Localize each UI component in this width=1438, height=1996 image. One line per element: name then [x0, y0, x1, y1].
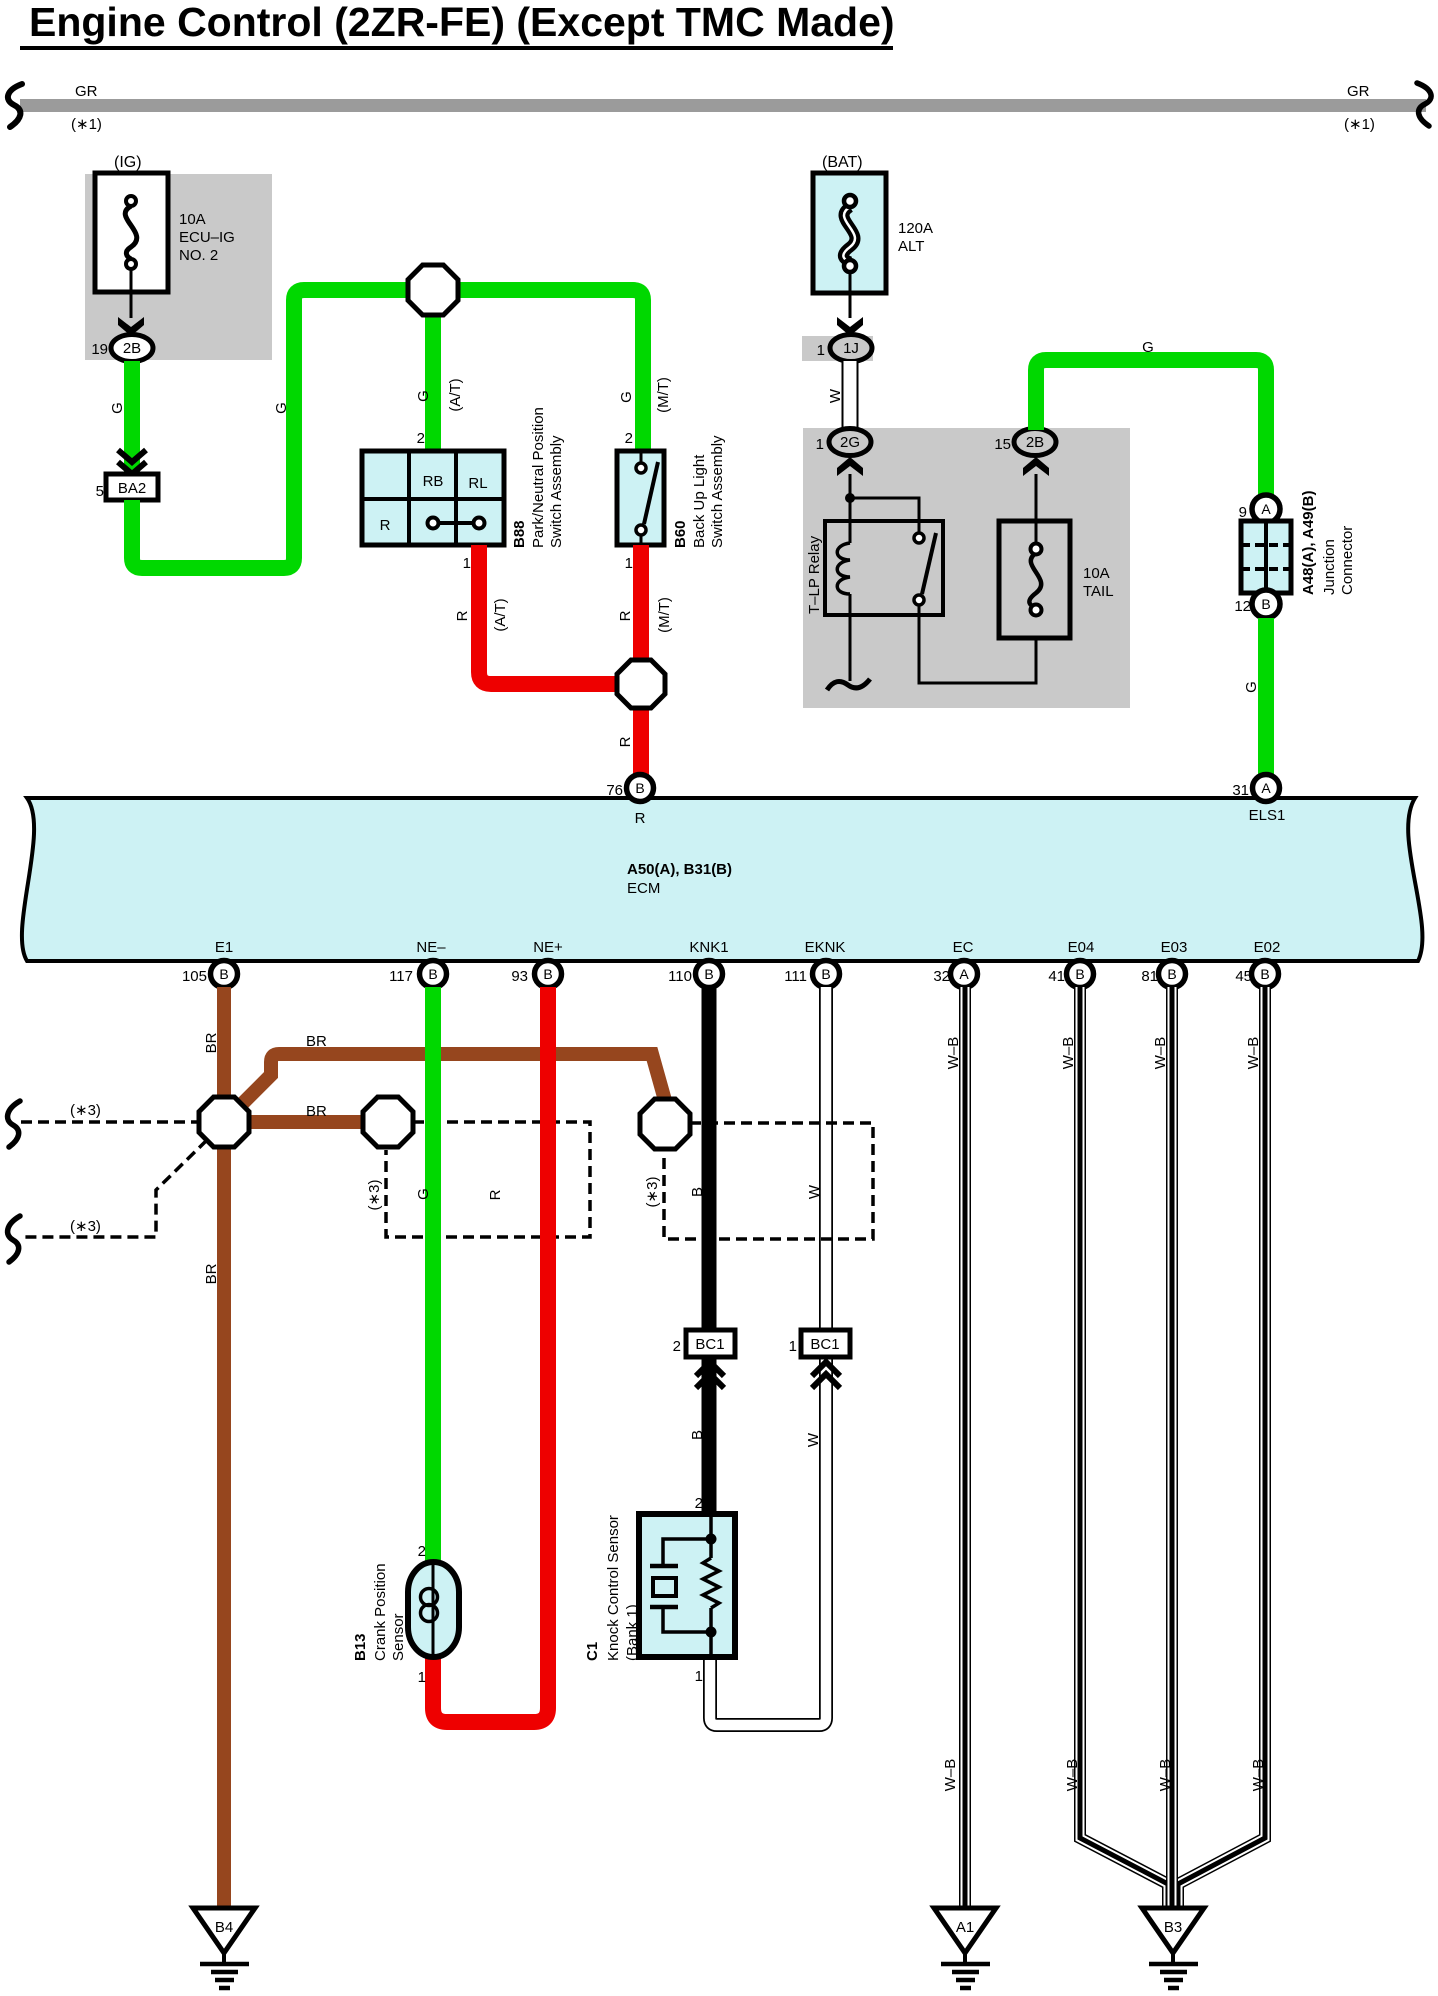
wire R from ECM 93 NE+ to B13 pin 1	[433, 987, 548, 1722]
svg-text:G: G	[1142, 339, 1154, 356]
node W-B label E04 upper	[1060, 1037, 1077, 1070]
svg-text:Crank Position: Crank Position	[372, 1563, 389, 1661]
svg-text:BC1: BC1	[695, 1336, 724, 1353]
ground B3	[1142, 1908, 1204, 1988]
sensor B13 Crank Position Sensor	[408, 1562, 459, 1657]
node B label KNK box	[689, 1187, 706, 1197]
svg-text:A: A	[1261, 501, 1271, 517]
arrow up to 2B	[1023, 457, 1049, 476]
svg-text:(Bank 1): (Bank 1)	[624, 1604, 641, 1661]
svg-text:RB: RB	[423, 473, 444, 490]
svg-text:1: 1	[625, 555, 633, 572]
arrow up to 2G	[837, 457, 863, 476]
connector ECM 76 (B)	[606, 775, 653, 828]
svg-text:2: 2	[418, 1543, 426, 1560]
node T-LP Relay label	[806, 535, 823, 614]
svg-text:105: 105	[182, 968, 207, 985]
node B label lower	[689, 1430, 706, 1440]
node R label NE box	[487, 1189, 504, 1200]
wire bus-end squiggle right	[1417, 83, 1431, 126]
node B88 pin 2 label	[417, 430, 425, 447]
svg-text:B: B	[821, 966, 830, 982]
node (*3) label KNK box	[644, 1177, 661, 1208]
svg-text:R: R	[487, 1189, 504, 1200]
connector ECM 111 (B) EKNK	[784, 961, 839, 988]
svg-text:BR: BR	[306, 1033, 327, 1050]
svg-text:120A: 120A	[898, 220, 933, 237]
svg-text:2: 2	[695, 1495, 703, 1512]
ECM A50(A) B31(B)	[22, 798, 1423, 961]
svg-text:ELS1: ELS1	[1249, 807, 1286, 824]
fuse 10A ECU-IG NO.2	[95, 173, 235, 292]
svg-text:BR: BR	[306, 1103, 327, 1120]
node G label top	[1142, 339, 1154, 356]
svg-text:B: B	[635, 780, 644, 796]
svg-text:Park/Neutral Position: Park/Neutral Position	[530, 407, 547, 548]
node ECM pin name labels	[215, 939, 1281, 956]
connector 5 BA2	[96, 474, 158, 500]
svg-text:15: 15	[994, 436, 1011, 453]
svg-text:A: A	[959, 966, 969, 982]
svg-text:76: 76	[606, 782, 623, 799]
node W label	[827, 388, 844, 403]
node B13 name label	[352, 1563, 407, 1661]
svg-text:TAIL: TAIL	[1083, 583, 1114, 600]
svg-text:E04: E04	[1068, 939, 1095, 956]
svg-text:C1: C1	[584, 1642, 601, 1661]
svg-text:W–B: W–B	[1245, 1037, 1262, 1070]
junction connector A48(A) A49(B)	[1241, 521, 1291, 593]
node junction connector name label	[1300, 491, 1356, 595]
wire G loop from BA2 down right and up to junction	[132, 290, 433, 568]
connector 1 (1J)	[802, 335, 873, 362]
svg-text:W–B: W–B	[1152, 1037, 1169, 1070]
node splice octagon BR 2	[363, 1097, 413, 1147]
svg-text:GR: GR	[75, 83, 98, 100]
svg-text:A48(A), A49(B): A48(A), A49(B)	[1300, 491, 1317, 595]
node B13 pin 2 label	[418, 1543, 426, 1560]
wire bus-end squiggle (*3) upper	[8, 1101, 20, 1147]
node W-B label E02 lower	[1250, 1759, 1267, 1792]
svg-text:ECM: ECM	[627, 880, 660, 897]
svg-text:(∗3): (∗3)	[70, 1102, 101, 1119]
wire W from 1J to 2G	[842, 361, 859, 430]
svg-text:W–B: W–B	[1060, 1037, 1077, 1070]
node G (A/T) label	[415, 378, 464, 411]
switch B60 Back Up Light Switch Assembly	[617, 451, 664, 545]
arrow down into 1(1J)	[837, 317, 863, 336]
svg-text:B13: B13	[352, 1633, 369, 1661]
svg-text:R: R	[454, 610, 471, 621]
wire W-B from ECM 45 E02 to ground B3	[1178, 987, 1265, 1908]
svg-text:B: B	[1260, 966, 1269, 982]
svg-text:Connector: Connector	[1339, 526, 1356, 595]
svg-text:5: 5	[96, 483, 104, 500]
svg-text:B: B	[704, 966, 713, 982]
title: Engine Control (2ZR-FE) (Except TMC Made)	[20, 0, 895, 48]
fuse block shading (IG)	[85, 174, 272, 360]
svg-text:2: 2	[417, 430, 425, 447]
svg-text:2B: 2B	[1026, 434, 1044, 451]
svg-text:1: 1	[789, 1338, 797, 1355]
wire BR between splices	[224, 1115, 388, 1129]
connector ECM 110 (B) KNK1	[668, 961, 722, 988]
node B60 name label	[672, 435, 726, 548]
node C1 pin 1 label	[695, 1668, 703, 1685]
svg-text:W–B: W–B	[1157, 1759, 1174, 1792]
svg-text:E02: E02	[1254, 939, 1281, 956]
svg-text:W–B: W–B	[945, 1037, 962, 1070]
wire bus-end squiggle (*3) lower	[8, 1216, 20, 1262]
node G label right loop	[273, 402, 290, 414]
connector ECM 31 (A)	[1232, 775, 1285, 825]
svg-text:W–B: W–B	[1064, 1759, 1081, 1792]
svg-text:110: 110	[668, 968, 692, 985]
connector 19 (2B)	[91, 335, 153, 362]
node (*3) label upper	[70, 1102, 101, 1119]
svg-text:G: G	[618, 391, 635, 403]
node B60 pin 2 label	[625, 430, 633, 447]
svg-text:ECU–IG: ECU–IG	[179, 229, 235, 246]
arrow double chevron into BA2	[118, 450, 146, 474]
node B13 pin 1 label	[418, 1669, 426, 1686]
node GR label left	[71, 83, 102, 133]
node splice octagon red	[617, 660, 665, 708]
node BR label top horizontal	[306, 1033, 327, 1050]
svg-text:W: W	[827, 388, 844, 403]
svg-text:B: B	[1167, 966, 1176, 982]
node G label lower	[1243, 681, 1260, 693]
svg-text:W: W	[806, 1184, 823, 1199]
connector 15 (2B)	[994, 429, 1056, 456]
svg-text:B: B	[219, 966, 228, 982]
svg-text:R: R	[617, 610, 634, 621]
svg-text:A: A	[1261, 780, 1271, 796]
svg-text:W–B: W–B	[942, 1759, 959, 1792]
svg-text:B60: B60	[672, 520, 689, 548]
wire GR bus bar	[20, 99, 1426, 112]
svg-text:93: 93	[511, 968, 528, 985]
svg-text:W–B: W–B	[1250, 1759, 1267, 1792]
svg-text:1: 1	[817, 342, 825, 359]
ground A1	[934, 1908, 996, 1988]
svg-text:Switch Assembly: Switch Assembly	[548, 435, 565, 548]
svg-text:BC1: BC1	[810, 1336, 839, 1353]
svg-text:81: 81	[1141, 968, 1158, 985]
connector 9 (A)	[1239, 495, 1280, 523]
svg-text:(∗3): (∗3)	[366, 1180, 383, 1211]
svg-text:9: 9	[1239, 504, 1247, 521]
svg-text:R: R	[635, 810, 646, 827]
svg-text:31: 31	[1232, 782, 1249, 799]
node (*3) label lower	[70, 1218, 101, 1235]
wire BR branch to upper harness	[233, 1054, 666, 1113]
svg-text:G: G	[415, 390, 432, 402]
ground B4	[193, 1908, 255, 1988]
node BR label vertical upper	[203, 1032, 220, 1053]
svg-text:G: G	[109, 402, 126, 414]
wire shield dashed box around NE wires	[386, 1122, 590, 1237]
connector ECM 45 (B) E02	[1235, 961, 1278, 988]
svg-text:(A/T): (A/T)	[492, 598, 509, 631]
wire shield dashed (*3) left branch 2	[23, 1140, 207, 1237]
node BR label mid horizontal	[306, 1103, 327, 1120]
node R label above 76(B)	[617, 736, 634, 747]
svg-text:B88: B88	[511, 520, 528, 548]
node (IG) label	[114, 154, 142, 171]
node W label lower	[805, 1432, 822, 1447]
connector 12 (B)	[1234, 590, 1280, 618]
svg-text:(A/T): (A/T)	[447, 378, 464, 411]
svg-text:1: 1	[418, 1669, 426, 1686]
node (BAT) label	[822, 154, 863, 171]
svg-text:A1: A1	[956, 1919, 974, 1936]
connector ECM 32 (A) EC	[933, 961, 977, 988]
svg-text:2: 2	[673, 1338, 681, 1355]
svg-text:(∗3): (∗3)	[70, 1218, 101, 1235]
wire G from junction to B60 drop	[433, 290, 643, 451]
wire W-B from ECM 41 E04 to ground B3	[1080, 987, 1168, 1908]
wire fusible link output	[849, 270, 852, 318]
arrow down into 19(2B)	[118, 317, 144, 336]
arrow double chevron up BC1-1	[812, 1362, 840, 1388]
wire W-B from ECM 81 E03 to ground B3	[1166, 987, 1178, 1908]
fusible link 120A ALT	[813, 173, 933, 293]
arrow double chevron up BC1-2	[696, 1362, 724, 1388]
svg-text:Switch Assembly: Switch Assembly	[709, 435, 726, 548]
svg-text:1: 1	[695, 1668, 703, 1685]
relay T-LP Relay	[825, 474, 1036, 690]
svg-text:2G: 2G	[840, 434, 860, 451]
svg-text:B: B	[689, 1187, 706, 1197]
wire BR from ECM 105 E1 to ground B4	[217, 987, 231, 1908]
connector ECM 41 (B) E04	[1048, 961, 1093, 988]
wire W EKNK from ECM 111 to C1 pin 1	[710, 987, 826, 1725]
node C1 name label	[584, 1515, 641, 1661]
svg-text:Knock Control Sensor: Knock Control Sensor	[605, 1515, 622, 1661]
svg-text:ALT: ALT	[898, 238, 924, 255]
svg-text:10A: 10A	[179, 211, 206, 228]
node splice octagon BR 1	[199, 1097, 249, 1147]
wire G from ECM 117 NE- to B13 pin 2	[425, 987, 441, 1564]
wire R from splice to ECM 76(B)	[633, 684, 649, 777]
svg-text:1: 1	[463, 555, 471, 572]
node B60 pin 1 label	[625, 555, 633, 572]
wire W-B from ECM 32 EC to ground A1	[959, 987, 971, 1908]
wire shield dashed (*3) left branch 1	[21, 1120, 199, 1124]
svg-text:B: B	[1075, 966, 1084, 982]
fuse 10A TAIL	[999, 474, 1114, 638]
svg-text:EKNK: EKNK	[805, 939, 846, 956]
node W-B label EC upper	[945, 1037, 962, 1070]
node G (M/T) label	[618, 377, 672, 413]
wire R from B60 pin 1 to splice	[633, 545, 649, 684]
svg-text:117: 117	[389, 968, 413, 985]
svg-text:E1: E1	[215, 939, 233, 956]
svg-text:(∗1): (∗1)	[71, 116, 102, 133]
svg-text:R: R	[380, 517, 391, 534]
wire shield dashed box around KNK wires	[664, 1123, 873, 1239]
svg-text:BA2: BA2	[118, 480, 146, 497]
svg-text:RL: RL	[468, 475, 487, 492]
svg-text:B3: B3	[1164, 1919, 1182, 1936]
svg-text:B: B	[689, 1430, 706, 1440]
svg-text:NE+: NE+	[533, 939, 563, 956]
svg-text:R: R	[617, 736, 634, 747]
connector ECM 117 (B) NE-	[389, 961, 446, 988]
svg-text:BR: BR	[203, 1032, 220, 1053]
svg-text:2: 2	[625, 430, 633, 447]
wire B from ECM 110 KNK1 to C1 pin 2	[702, 987, 717, 1516]
wire G from relay 2B up over to junction connector	[1036, 360, 1266, 497]
connector ECM 93 (B) NE+	[511, 961, 561, 988]
svg-text:(IG): (IG)	[114, 154, 142, 171]
svg-text:NE–: NE–	[416, 939, 446, 956]
svg-text:(∗3): (∗3)	[644, 1177, 661, 1208]
node BR label vertical lower	[203, 1263, 220, 1284]
wire bus-end squiggle left	[8, 84, 22, 127]
svg-text:Junction: Junction	[1321, 539, 1338, 595]
svg-text:19: 19	[91, 341, 108, 358]
node C1 pin 2 label	[695, 1495, 703, 1512]
svg-text:KNK1: KNK1	[689, 939, 728, 956]
svg-text:1: 1	[816, 436, 824, 453]
svg-text:Back Up Light: Back Up Light	[691, 454, 708, 548]
svg-text:Engine Control (2ZR-FE) (Excep: Engine Control (2ZR-FE) (Except TMC Made…	[29, 0, 895, 45]
relay block shading T-LP	[803, 428, 1130, 708]
svg-text:B: B	[428, 966, 437, 982]
svg-text:EC: EC	[953, 939, 974, 956]
connector ECM 105 (B) E1	[182, 961, 238, 988]
node GR label right	[1344, 83, 1375, 133]
node W label KNK box	[806, 1184, 823, 1199]
connector 1 (2G)	[816, 429, 871, 456]
node W-B label E04 lower	[1064, 1759, 1081, 1792]
node G label NE box	[415, 1188, 432, 1200]
svg-text:G: G	[415, 1188, 432, 1200]
node B88 pin 1 label	[463, 555, 471, 572]
wire fuse output to 2B	[130, 268, 133, 318]
node W-B label EC lower	[942, 1759, 959, 1792]
connector 2 BC1	[673, 1330, 735, 1357]
node R (A/T) label	[454, 598, 509, 631]
svg-text:GR: GR	[1347, 83, 1370, 100]
svg-text:2B: 2B	[123, 340, 141, 357]
svg-text:(∗1): (∗1)	[1344, 116, 1375, 133]
wire G from junction down to B88 pin 2	[425, 290, 441, 451]
svg-text:32: 32	[933, 968, 950, 985]
svg-text:(M/T): (M/T)	[656, 597, 673, 633]
svg-text:G: G	[1243, 681, 1260, 693]
svg-text:B: B	[543, 966, 552, 982]
svg-text:B4: B4	[215, 1919, 233, 1936]
svg-text:10A: 10A	[1083, 565, 1110, 582]
node splice octagon green	[408, 265, 458, 315]
svg-text:(BAT): (BAT)	[822, 154, 863, 171]
node W-B label E03 upper	[1152, 1037, 1169, 1070]
node R (M/T) label	[617, 597, 673, 633]
switch B88 Park/Neutral Position Switch Assembly	[362, 451, 504, 545]
node B88 name label	[511, 407, 565, 548]
svg-text:W: W	[805, 1432, 822, 1447]
svg-text:A50(A), B31(B): A50(A), B31(B)	[627, 861, 732, 878]
svg-text:111: 111	[784, 968, 807, 985]
wire G from junction connector to ECM 31(A)	[1258, 618, 1274, 777]
sensor C1 Knock Control Sensor	[639, 1514, 735, 1657]
wire G from 19(2B) down to BA2	[124, 361, 140, 474]
connector 1 BC1	[789, 1330, 850, 1357]
svg-text:E03: E03	[1161, 939, 1188, 956]
svg-text:12: 12	[1234, 598, 1251, 615]
svg-text:BR: BR	[203, 1263, 220, 1284]
svg-text:T–LP Relay: T–LP Relay	[806, 535, 823, 614]
node W-B label E03 lower	[1157, 1759, 1174, 1792]
svg-text:1J: 1J	[843, 340, 859, 357]
svg-text:(M/T): (M/T)	[655, 377, 672, 413]
node G label left loop	[109, 402, 126, 414]
connector ECM 81 (B) E03	[1141, 961, 1185, 988]
wire R from B88 pin 1 to splice	[479, 545, 641, 684]
svg-text:G: G	[273, 402, 290, 414]
node W-B label E02 upper	[1245, 1037, 1262, 1070]
svg-text:Sensor: Sensor	[390, 1613, 407, 1661]
svg-text:41: 41	[1048, 968, 1065, 985]
node splice octagon KNK	[640, 1099, 690, 1149]
svg-text:B: B	[1261, 596, 1270, 612]
node (*3) label NE box	[366, 1180, 383, 1211]
svg-text:NO. 2: NO. 2	[179, 247, 218, 264]
